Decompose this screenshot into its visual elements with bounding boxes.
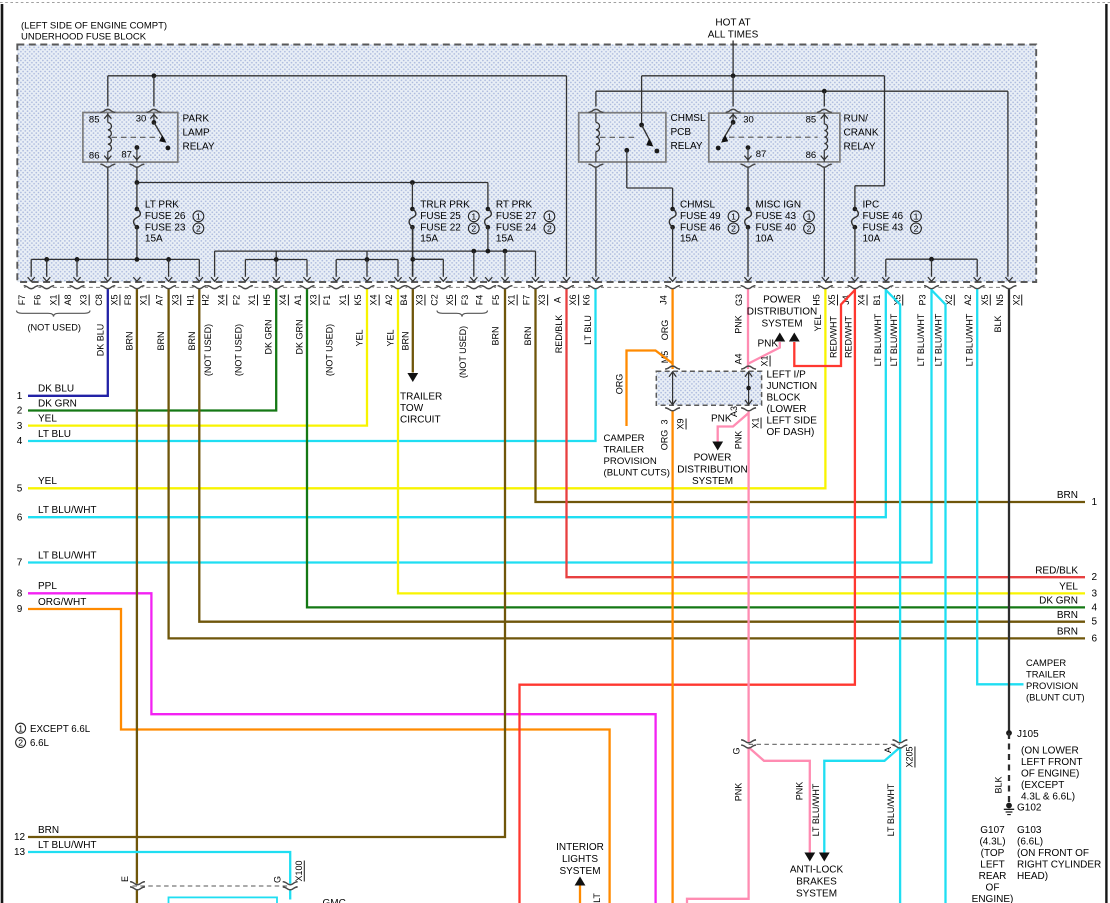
junction block arc pnk top — [741, 366, 756, 369]
coil runcrank — [821, 115, 828, 119]
svg-text:PCB: PCB — [671, 127, 692, 138]
wire LT BLU/WHT below X100 — [289, 889, 291, 899]
wire RED/WHT J4 branch to power distribution — [794, 290, 855, 366]
relay K2 CHMSL PCB RELAY box — [579, 113, 666, 162]
svg-text:LT BLU/WHT: LT BLU/WHT — [933, 313, 943, 366]
svg-text:30: 30 — [136, 114, 147, 125]
svg-text:87: 87 — [756, 149, 767, 160]
pin F8 at x=136.9 — [131, 286, 142, 290]
svg-text:SYSTEM: SYSTEM — [559, 866, 600, 877]
relay terminal arc 87 — [130, 164, 145, 167]
pin G3 at x=748 — [743, 286, 754, 290]
wire runcrank86 to pin H5 — [823, 168, 825, 277]
svg-text:RUN/: RUN/ — [844, 113, 869, 124]
wire BRN H1 to right 5 — [199, 289, 1085, 622]
svg-text:N5: N5 — [995, 294, 1005, 306]
svg-text:SYSTEM: SYSTEM — [761, 318, 802, 329]
svg-text:7: 7 — [17, 558, 23, 569]
svg-text:ALL TIMES: ALL TIMES — [708, 30, 759, 41]
relay terminal arc 30 runcrank — [726, 109, 741, 112]
not used brace C2-F4 group — [437, 311, 488, 317]
svg-text:BRN: BRN — [1057, 610, 1078, 621]
svg-text:C2: C2 — [429, 294, 439, 306]
svg-text:E: E — [120, 876, 130, 882]
svg-text:BRN: BRN — [523, 326, 533, 345]
coil park lamp relay — [107, 113, 109, 123]
arrow trailer tow — [407, 373, 418, 382]
relay internal dashed line runcrank — [729, 136, 818, 138]
wire BLK dashed to G102 — [1008, 733, 1010, 803]
svg-text:FUSE 46: FUSE 46 — [863, 211, 904, 222]
svg-text:OF: OF — [986, 883, 1000, 894]
svg-text:(NOT USED): (NOT USED) — [234, 324, 244, 376]
svg-text:POWER: POWER — [694, 453, 732, 464]
svg-text:CHMSL: CHMSL — [671, 113, 706, 124]
node TRLR PRK fuse tap — [410, 180, 415, 185]
svg-text:LAMP: LAMP — [183, 127, 211, 138]
svg-text:B4: B4 — [399, 294, 409, 305]
junction block arc org bottom — [665, 408, 680, 411]
svg-text:LEFT SIDE: LEFT SIDE — [767, 415, 818, 426]
svg-text:1: 1 — [547, 211, 552, 221]
svg-text:X5: X5 — [110, 294, 120, 305]
switch arm runcrank — [723, 122, 734, 140]
coil chmsl relay — [595, 113, 597, 123]
svg-text:BLK: BLK — [993, 315, 1003, 332]
svg-text:PARK: PARK — [183, 113, 210, 124]
pin K5 at x=367 — [362, 286, 373, 290]
pin C2 at x=443.3 — [438, 286, 449, 290]
svg-text:C8: C8 — [94, 294, 104, 306]
svg-text:RELAY: RELAY — [844, 141, 876, 152]
svg-text:2: 2 — [18, 738, 23, 748]
relay internal dashed line — [112, 136, 161, 138]
svg-text:6.6L: 6.6L — [30, 738, 49, 749]
wire RED/WHT J4 main down — [520, 289, 855, 903]
relay terminal arc 87 runcrank — [741, 164, 756, 167]
svg-text:FUSE 43: FUSE 43 — [863, 222, 904, 233]
svg-text:2: 2 — [731, 224, 736, 234]
bus trlr spur — [412, 227, 414, 277]
wire PNK jog to ALB — [749, 747, 810, 852]
wire chmsl coil to pin K6 — [595, 168, 597, 277]
wire PNK below X205 — [687, 747, 749, 903]
connector face dashed line — [24, 286, 1014, 288]
pin H2 at x=214.6 — [209, 286, 220, 290]
svg-text:X1: X1 — [751, 417, 761, 428]
relay K1 PARK LAMP RELAY box — [83, 113, 178, 163]
wire YEL left 3 — [28, 289, 367, 426]
svg-text:DK GRN: DK GRN — [264, 319, 274, 354]
svg-text:(EXCEPT: (EXCEPT — [1021, 780, 1064, 791]
svg-text:RED/BLK: RED/BLK — [554, 315, 564, 354]
svg-text:G103: G103 — [1017, 825, 1042, 836]
svg-text:BRAKES: BRAKES — [796, 877, 837, 888]
pin 30 runcrank — [730, 115, 737, 119]
wire BLK N5 to J105 — [1008, 289, 1010, 733]
svg-text:1: 1 — [18, 723, 23, 733]
svg-text:X4: X4 — [216, 294, 226, 305]
pin F2 at x=245.4 — [240, 286, 251, 290]
svg-text:ORG: ORG — [615, 374, 625, 395]
fuse CHMSL FUSE 49/46 15A — [670, 207, 675, 212]
svg-text:FUSE 26: FUSE 26 — [145, 211, 186, 222]
node bus junction pin30 park relay — [152, 73, 157, 78]
svg-text:LT BLU/WHT: LT BLU/WHT — [38, 550, 97, 561]
wire RED/BLK A to right 2 — [567, 289, 1086, 578]
svg-text:BLOCK: BLOCK — [767, 392, 801, 403]
pin K6 at x=595.5 — [590, 286, 601, 290]
svg-text:UNDERHOOD FUSE BLOCK: UNDERHOOD FUSE BLOCK — [21, 32, 147, 43]
svg-text:X9: X9 — [676, 418, 686, 429]
svg-text:(6.6L): (6.6L) — [1017, 837, 1043, 848]
pin A2 at x=977.2 — [972, 286, 983, 290]
wire LT BLU/WHT below X205 — [899, 747, 901, 903]
wire BRN F8 to X100 E — [136, 289, 138, 884]
bus B+ left segment — [108, 75, 567, 77]
svg-text:A2: A2 — [963, 294, 973, 305]
pin A1 at x=307 — [302, 286, 313, 290]
svg-text:K5: K5 — [353, 294, 363, 305]
svg-text:BRN: BRN — [491, 326, 501, 345]
svg-text:3: 3 — [660, 419, 670, 424]
svg-text:INTERIOR: INTERIOR — [556, 842, 604, 853]
svg-text:YEL: YEL — [38, 476, 57, 487]
fuse TRLR PRK FUSE 25/22 15A — [410, 207, 415, 212]
svg-text:9: 9 — [17, 604, 23, 615]
svg-text:X3: X3 — [170, 294, 180, 305]
svg-text:FUSE 23: FUSE 23 — [145, 222, 186, 233]
svg-text:X1: X1 — [48, 294, 58, 305]
svg-text:BRN: BRN — [38, 825, 59, 836]
wire ORG below junction block — [671, 410, 673, 903]
svg-text:F4: F4 — [475, 295, 485, 306]
pin N5 at x=1009 — [1004, 286, 1015, 290]
svg-text:CRANK: CRANK — [844, 127, 879, 138]
svg-text:LT BLU/WHT: LT BLU/WHT — [889, 313, 899, 366]
junction block arc org top — [665, 366, 680, 369]
svg-text:A: A — [883, 747, 893, 753]
bus left park lamp outputs — [31, 258, 199, 260]
svg-text:2: 2 — [17, 406, 23, 417]
svg-text:(NOT USED): (NOT USED) — [325, 324, 335, 376]
svg-text:H1: H1 — [185, 294, 195, 306]
bus main park outputs — [215, 250, 536, 252]
svg-text:TRAILER: TRAILER — [400, 392, 442, 403]
svg-text:DISTRIBUTION: DISTRIBUTION — [747, 306, 818, 317]
svg-text:2: 2 — [196, 224, 201, 234]
left IP junction block box — [656, 371, 761, 405]
svg-text:(ON FRONT OF: (ON FRONT OF — [1017, 848, 1089, 859]
svg-text:DK BLU: DK BLU — [95, 324, 105, 357]
wire relay86 to pin C8 — [107, 168, 109, 277]
svg-text:CAMPER: CAMPER — [1026, 657, 1066, 668]
svg-text:BRN: BRN — [1057, 627, 1078, 638]
wire LT BLU/WHT A2 camper provision — [977, 289, 1023, 685]
wire relay87 to park fuses bus — [136, 168, 138, 183]
svg-text:LT BLU/WHT: LT BLU/WHT — [916, 313, 926, 366]
arrow interior lights up — [575, 877, 586, 886]
ground G102 — [1006, 803, 1012, 809]
wire LT BLU/WHT B1 branch — [886, 290, 900, 742]
svg-text:12: 12 — [14, 832, 26, 843]
svg-text:X1: X1 — [247, 294, 257, 305]
svg-text:10A: 10A — [863, 234, 881, 245]
svg-text:F1: F1 — [322, 295, 332, 306]
bus ignition rail — [596, 90, 1008, 92]
pin H5 at x=276.2 — [271, 286, 282, 290]
wire BRN B4 trailer tow — [412, 289, 414, 373]
wire ORG/WHT left 9 — [28, 609, 610, 903]
pin B4 at x=412.8 — [407, 286, 418, 290]
svg-text:2: 2 — [471, 224, 476, 234]
wire ORG interior lights stub — [579, 886, 581, 903]
wire runcrank87 to MISC IGN fuse — [747, 168, 749, 209]
svg-text:(4.3L): (4.3L) — [979, 837, 1005, 848]
svg-text:85: 85 — [806, 114, 817, 125]
svg-text:SYSTEM: SYSTEM — [692, 476, 733, 487]
svg-text:A1: A1 — [293, 294, 303, 305]
svg-text:BRN: BRN — [156, 331, 166, 350]
pin C8 at x=107.8 — [102, 286, 113, 290]
svg-text:PNK: PNK — [758, 339, 779, 350]
svg-text:F7: F7 — [522, 295, 532, 306]
relay terminal arc 85 runcrank — [817, 109, 832, 112]
svg-text:CIRCUIT: CIRCUIT — [400, 415, 441, 426]
wire PNK below junction block — [747, 410, 749, 742]
junction block internal bus org — [672, 372, 674, 404]
node hot feed junction — [731, 73, 736, 78]
pin P3 at x=931.5 — [926, 286, 937, 290]
svg-text:RELAY: RELAY — [671, 141, 703, 152]
svg-text:X100: X100 — [294, 860, 304, 881]
svg-text:GMC: GMC — [323, 898, 346, 903]
svg-text:LEFT I/P: LEFT I/P — [767, 369, 807, 380]
pin F5 at x=505 — [500, 286, 511, 290]
pin 86 arrow — [104, 156, 111, 160]
svg-text:TRLR PRK: TRLR PRK — [420, 200, 470, 211]
wire LT BLU/WHT left 7 — [28, 289, 932, 563]
wire LT BLU/WHT jog to ALB — [824, 747, 900, 852]
svg-text:OF DASH): OF DASH) — [767, 427, 815, 438]
wire DK GRN left 2 — [28, 289, 276, 411]
wire PNK G3 to junction block — [747, 289, 749, 369]
switch arm park lamp relay — [154, 122, 165, 140]
svg-text:85: 85 — [89, 115, 100, 126]
svg-text:H5: H5 — [811, 294, 821, 306]
svg-text:G3: G3 — [734, 294, 744, 306]
svg-text:RED/BLK: RED/BLK — [1035, 565, 1078, 576]
svg-text:PNK: PNK — [734, 315, 744, 334]
svg-text:F2: F2 — [231, 295, 241, 306]
svg-text:3: 3 — [17, 421, 23, 432]
pin 87 runcrank — [746, 145, 751, 150]
svg-text:DK GRN: DK GRN — [1039, 596, 1078, 607]
wire BRN F7 to right 1 — [536, 289, 1086, 502]
svg-text:(NOT USED): (NOT USED) — [458, 326, 468, 378]
bus sub left — [275, 251, 277, 259]
svg-text:YEL: YEL — [385, 329, 395, 346]
wire LT BLU/WHT left 13 to X100 — [28, 852, 290, 884]
footnote except 6.6L — [16, 723, 26, 733]
svg-text:15A: 15A — [145, 234, 163, 245]
svg-text:X3: X3 — [537, 294, 547, 305]
connector X205 dashed line — [749, 743, 900, 745]
svg-text:RED/WHT: RED/WHT — [829, 316, 839, 358]
wire PPL left 8 — [28, 593, 656, 903]
svg-text:13: 13 — [14, 847, 26, 858]
terminal cups overlay — [24, 109, 1017, 890]
svg-text:CAMPER: CAMPER — [604, 433, 645, 444]
svg-text:TRAILER: TRAILER — [1026, 669, 1066, 680]
svg-text:CHMSL: CHMSL — [680, 200, 715, 211]
svg-text:X1: X1 — [507, 294, 517, 305]
arrow power distribution red up — [789, 333, 800, 342]
junction block arc pnk bottom — [741, 408, 756, 411]
pin J4 at x=672.6 — [667, 286, 678, 290]
svg-text:X5: X5 — [445, 294, 455, 305]
wire YEL left 5 — [28, 289, 825, 489]
svg-text:LEFT FRONT: LEFT FRONT — [1021, 757, 1082, 768]
wire BRN F5 to left 12 — [28, 289, 505, 837]
svg-text:RED/WHT: RED/WHT — [843, 316, 853, 358]
svg-text:30: 30 — [743, 114, 754, 125]
svg-text:4: 4 — [17, 436, 23, 447]
connector X100 dashed line — [133, 885, 291, 887]
pin F4 at x=488.7 — [483, 286, 494, 290]
pin B1 at x=885.8 — [880, 286, 891, 290]
svg-text:LT BLU/WHT: LT BLU/WHT — [811, 783, 821, 836]
wire LT BLU left 4 — [28, 289, 596, 441]
svg-text:LT BLU/WHT: LT BLU/WHT — [964, 313, 974, 366]
junction block internal bus pnk — [748, 372, 750, 404]
not used brace left group — [17, 311, 91, 317]
fuse MISC IGN FUSE 43/40 10A — [746, 207, 751, 212]
svg-text:FUSE 27: FUSE 27 — [496, 211, 537, 222]
wire ORG camper provision branch — [627, 351, 673, 427]
fuse RT PRK FUSE 27/24 15A — [486, 207, 491, 212]
svg-text:F5: F5 — [491, 295, 501, 306]
svg-text:1: 1 — [196, 211, 201, 221]
svg-text:RELAY: RELAY — [183, 141, 215, 152]
svg-text:FUSE 40: FUSE 40 — [756, 222, 797, 233]
connector X205 arcs A — [893, 740, 908, 743]
svg-text:(ON LOWER: (ON LOWER — [1021, 746, 1079, 757]
svg-text:FUSE 22: FUSE 22 — [420, 222, 461, 233]
splice J105 — [1006, 730, 1012, 736]
svg-text:PNK: PNK — [795, 782, 805, 801]
wire YEL A2 to right 3 — [398, 289, 1085, 594]
pin F3 at x=473.8 — [468, 286, 479, 290]
svg-text:2: 2 — [914, 224, 919, 234]
pin 85 arrow — [104, 115, 111, 119]
svg-text:X3: X3 — [309, 294, 319, 305]
svg-text:6: 6 — [17, 512, 23, 523]
wire chmsl switched to CHMSL fuse — [626, 162, 628, 188]
svg-text:ANTI-LOCK: ANTI-LOCK — [790, 865, 844, 876]
svg-text:BRN: BRN — [125, 331, 135, 350]
svg-text:(LOWER: (LOWER — [767, 404, 807, 415]
svg-text:X205: X205 — [905, 746, 915, 767]
page left border — [1, 4, 4, 903]
svg-text:G102: G102 — [1017, 803, 1042, 814]
arrow power distribution down — [712, 442, 723, 451]
svg-text:REAR: REAR — [979, 871, 1007, 882]
relay terminal arc 86 runcrank — [817, 164, 832, 167]
connector X100 arcs G — [283, 882, 298, 885]
wire DK BLU left 1 — [28, 289, 108, 396]
footnote 6.6L — [16, 738, 26, 748]
underhood fuse block dashed box — [17, 45, 1036, 283]
bus B+ right segment — [642, 75, 885, 77]
connector X100 arcs E — [130, 882, 145, 885]
svg-text:ORG: ORG — [660, 430, 670, 451]
wire DK GRN A1 to right 4 — [307, 289, 1085, 608]
svg-text:A2: A2 — [384, 294, 394, 305]
svg-text:PPL: PPL — [38, 581, 57, 592]
svg-text:LT PRK: LT PRK — [145, 200, 179, 211]
svg-text:LEFT: LEFT — [980, 860, 1004, 871]
pin A2 at x=398 — [393, 286, 404, 290]
svg-text:X1: X1 — [338, 294, 348, 305]
svg-text:(NOT USED): (NOT USED) — [27, 323, 80, 333]
svg-text:86: 86 — [89, 151, 100, 162]
connector X205 arcs G — [741, 740, 756, 743]
svg-text:RIGHT CYLINDER: RIGHT CYLINDER — [1017, 860, 1101, 871]
pin F6 at x=46.7 — [41, 286, 52, 290]
svg-text:HEAD): HEAD) — [1017, 871, 1048, 882]
svg-text:5: 5 — [1092, 617, 1098, 628]
svg-text:J105: J105 — [1017, 729, 1039, 740]
svg-text:86: 86 — [806, 150, 817, 161]
svg-text:G: G — [273, 876, 283, 883]
pin F1 at x=336.2 — [331, 286, 342, 290]
svg-text:K6: K6 — [582, 294, 592, 305]
svg-text:1: 1 — [471, 211, 476, 221]
switch contact dot chmsl — [655, 149, 660, 154]
svg-text:FUSE 24: FUSE 24 — [496, 222, 537, 233]
svg-text:X4: X4 — [369, 294, 379, 305]
svg-text:YEL: YEL — [1059, 582, 1078, 593]
svg-text:DK BLU: DK BLU — [38, 384, 74, 395]
svg-text:SYSTEM: SYSTEM — [796, 889, 837, 900]
svg-text:PROVISION: PROVISION — [1026, 680, 1078, 691]
svg-text:(NOT USED): (NOT USED) — [203, 324, 213, 376]
svg-text:3: 3 — [1092, 588, 1098, 599]
page right border — [1105, 4, 1107, 903]
relay terminal arc 30 — [147, 109, 162, 112]
switch pivot chmsl — [641, 113, 643, 125]
svg-text:(TOP: (TOP — [981, 848, 1005, 859]
svg-text:LT BLU/WHT: LT BLU/WHT — [873, 313, 883, 366]
svg-text:B1: B1 — [872, 294, 882, 305]
svg-text:(LEFT SIDE OF ENGINE COMPT): (LEFT SIDE OF ENGINE COMPT) — [21, 21, 167, 32]
svg-text:G107: G107 — [980, 825, 1005, 836]
page top dashed rule — [0, 2, 1110, 4]
svg-text:OF ENGINE): OF ENGINE) — [1021, 769, 1079, 780]
svg-text:15A: 15A — [680, 234, 698, 245]
svg-text:PNK: PNK — [734, 783, 744, 802]
svg-text:F7: F7 — [17, 295, 27, 306]
svg-text:J4: J4 — [659, 295, 669, 305]
svg-text:X1: X1 — [760, 355, 770, 366]
svg-text:FUSE 25: FUSE 25 — [420, 211, 461, 222]
relay terminal arc chmsl coil top — [589, 109, 604, 112]
arrow power distribution pink up — [774, 333, 785, 342]
switched output dot chmsl — [624, 148, 629, 153]
svg-text:(BLUNT CUTS): (BLUNT CUTS) — [604, 468, 670, 479]
svg-text:EXCEPT 6.6L: EXCEPT 6.6L — [30, 724, 91, 735]
